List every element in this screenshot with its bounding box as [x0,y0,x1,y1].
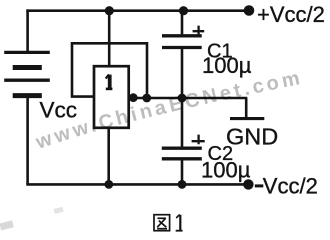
wire IC top lead [108,11,111,66]
svg-text:Vcc: Vcc [40,97,78,122]
battery B1 plates [4,52,50,95]
svg-text:100µ: 100µ [202,53,252,78]
node caps midpoint [178,94,187,103]
wire top rail [26,9,248,12]
wire C2 bottom lead [181,160,184,184]
wire feedback loop [72,43,147,98]
node bottom rail / C2 [178,180,187,189]
node bottom rail / IC [104,180,113,189]
wire battery negative lead [26,97,29,184]
caption figure symbol 图 [154,215,170,231]
svg-text:+Vcc/2: +Vcc/2 [257,2,325,27]
node top rail / C1 [179,6,188,15]
wire IC bottom lead [107,128,110,184]
wire GND drop [245,98,248,117]
ground symbol [230,117,264,120]
svg-text:Vcc/2: Vcc/2 [263,173,318,198]
capacitor C2 polarity plus [192,135,205,145]
wire IC output to caps midpoint [129,97,247,100]
op-amp U1 box [94,66,129,128]
wire C2 top lead [181,98,184,147]
label -Vcc/2 minus dash [255,184,263,187]
watermark corner fragment [0,220,14,230]
caption figure number 1 [176,215,183,231]
wire C1 bottom lead [181,49,184,98]
wire bottom rail [26,183,248,186]
op-amp U1 pin label 1 [106,74,113,89]
capacitor C1 polarity plus [193,26,205,36]
wire C1 top lead [181,11,184,35]
node top rail / IC [105,6,114,15]
capacitor C1 plates [162,36,202,48]
node IC output a [129,93,138,102]
node terminal +Vcc/2 [244,5,255,16]
svg-text:GND: GND [226,124,278,150]
scan speck [54,207,64,214]
wire battery positive lead [26,9,29,51]
node terminal -Vcc/2 [243,179,253,189]
capacitor C2 plates [162,148,202,159]
svg-text:100µ: 100µ [201,158,251,183]
node IC output b [142,94,151,103]
